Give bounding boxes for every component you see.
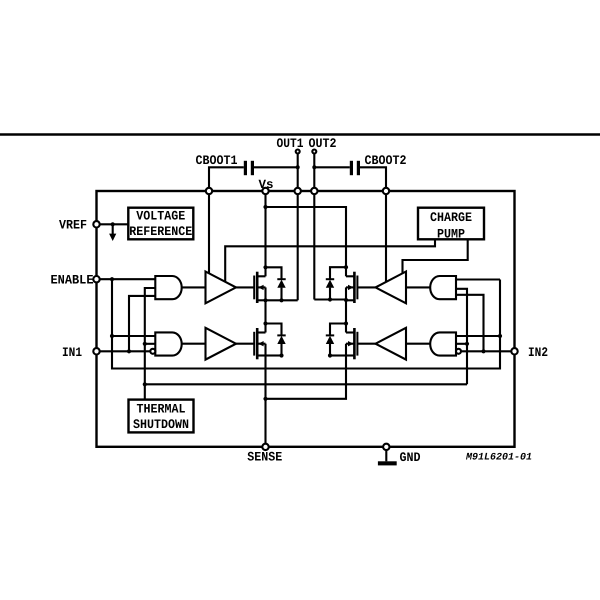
pin OUT2 <box>311 188 317 194</box>
svg-text:M91L6201-01: M91L6201-01 <box>465 453 532 464</box>
junction CBOOT1/OUT1 <box>296 165 300 169</box>
wire A4 enable input <box>456 335 500 337</box>
wire thermal to AND2 <box>145 343 156 345</box>
junction thermal cross <box>143 382 147 386</box>
wire CBOOT1 right <box>254 166 298 168</box>
wire thermal right vertical <box>456 289 467 385</box>
junction sense <box>263 397 267 401</box>
wire T4 gate lead <box>357 343 375 345</box>
wire A3 out <box>406 286 430 288</box>
junction ENABLE AND2 <box>110 334 114 338</box>
diode D4 <box>330 324 346 336</box>
svg-text:CHARGE: CHARGE <box>430 210 472 225</box>
junction OUT1 node <box>263 298 267 302</box>
wire CBOOT2 right <box>360 167 386 191</box>
transistor M2 (low side left) <box>253 332 255 356</box>
svg-text:SENSE: SENSE <box>247 450 282 465</box>
wire VREF <box>100 223 129 225</box>
wire CBOOT1 left <box>209 167 244 191</box>
pin CBOOT2 <box>383 188 389 194</box>
buffer T1 <box>206 272 237 304</box>
buffer T3 <box>376 272 407 304</box>
svg-text:CBOOT2: CBOOT2 <box>365 153 407 168</box>
svg-text:PUMP: PUMP <box>437 226 465 241</box>
pin OUT1 <box>295 188 301 194</box>
and-gate A4 <box>430 332 456 355</box>
wire thermal cross <box>145 383 467 385</box>
wire M2 source down <box>264 356 266 447</box>
junction ENABLE tap <box>110 277 114 281</box>
junction IN2 tap <box>481 349 485 353</box>
svg-text:GND: GND <box>400 450 421 465</box>
wire sense join <box>266 356 347 399</box>
capacitor CBOOT2 <box>350 161 353 175</box>
capacitor CBOOT1 <box>244 161 247 175</box>
and-gate A2 <box>155 332 181 355</box>
wire T3 gate lead <box>357 286 375 288</box>
junction M4 drain diode <box>344 321 348 325</box>
svg-text:CBOOT1: CBOOT1 <box>196 153 238 168</box>
wire IN1 <box>100 350 151 352</box>
svg-text:VREF: VREF <box>59 218 87 233</box>
wire T1 gate lead <box>236 286 254 288</box>
svg-text:ENABLE: ENABLE <box>51 273 94 288</box>
transistor M3 (high side right) <box>356 276 358 300</box>
wire IN2 up branch <box>456 295 484 352</box>
wire A1 out <box>182 286 206 288</box>
ground <box>385 450 387 461</box>
pin GND <box>383 444 389 450</box>
box THERMAL SHUTDOWN <box>129 400 194 433</box>
wire CBOOT1 internal <box>208 194 210 273</box>
wire thermal to A4 <box>456 343 467 345</box>
wire A3 enable input <box>456 278 500 280</box>
junction D4 anode <box>328 353 332 357</box>
wire IN2 <box>461 350 511 352</box>
transistor M1 (high side left) <box>253 276 255 300</box>
pin Vs <box>262 188 268 194</box>
junction enable right <box>498 334 502 338</box>
junction D2 anode <box>279 353 283 357</box>
pin IN1 <box>93 348 99 354</box>
diode D2 <box>266 324 282 336</box>
wire M2 source line <box>266 354 282 356</box>
svg-text:OUT2: OUT2 <box>309 136 337 151</box>
wire IN1 up branch <box>129 296 155 351</box>
wire OUT1 vertical <box>297 154 299 301</box>
junction D3 anode <box>328 297 332 301</box>
junction D1 anode <box>279 298 283 302</box>
bubble A2 input <box>150 349 155 354</box>
buffer T4 <box>376 328 407 360</box>
wire ENABLE to AND2 <box>112 335 155 337</box>
pin IN2 <box>511 348 517 354</box>
bubble A4 input <box>456 349 461 354</box>
wire OUT1 to M2 drain <box>264 300 266 332</box>
wire A2 out <box>182 343 206 345</box>
junction OUT2 node <box>344 298 348 302</box>
wire Vs to right drain <box>266 207 347 267</box>
wire Vs internal <box>264 194 266 267</box>
wire CBOOT2 left <box>314 166 350 168</box>
pin CBOOT1 <box>206 188 212 194</box>
svg-text:SHUTDOWN: SHUTDOWN <box>133 417 189 432</box>
wire ENABLE down <box>112 279 500 368</box>
wire OUT2 node <box>314 298 346 300</box>
svg-text:IN1: IN1 <box>62 345 82 360</box>
pin VREF <box>93 221 99 227</box>
junction M2 drain diode <box>263 321 267 325</box>
junction Vs branch <box>263 205 267 209</box>
terminal OUT2 <box>312 150 316 154</box>
box CHARGE PUMP <box>418 208 484 240</box>
junction M3 drain <box>344 265 348 269</box>
wire OUT2 vertical <box>313 154 315 300</box>
diode D1 <box>266 267 282 279</box>
wire charge pump 2 <box>403 239 468 273</box>
junction thermal A4 <box>465 342 469 346</box>
wire M4 source line <box>330 354 346 356</box>
svg-text:IN2: IN2 <box>528 345 548 360</box>
transistor M4 (low side right) <box>356 332 358 356</box>
package outline <box>97 191 515 447</box>
pin SENSE <box>262 444 268 450</box>
wire OUT2 to M4 drain <box>345 300 347 333</box>
junction M1 drain <box>263 265 267 269</box>
wire A4 out <box>406 343 430 345</box>
wire ENABLE to AND1 <box>100 278 156 280</box>
wire T2 gate lead <box>236 343 254 345</box>
svg-text:THERMAL: THERMAL <box>137 402 186 417</box>
box VOLTAGE REFERENCE <box>128 208 193 240</box>
pin ENABLE <box>93 276 99 282</box>
svg-text:VOLTAGE: VOLTAGE <box>136 209 185 224</box>
arrow internal reference <box>112 224 114 235</box>
svg-text:OUT1: OUT1 <box>277 136 304 151</box>
diode D3 <box>330 267 346 279</box>
junction CBOOT2/OUT2 <box>312 165 316 169</box>
junction IN1 tap <box>127 349 131 353</box>
and-gate A3 <box>430 276 456 299</box>
wire CBOOT2 internal <box>385 194 387 282</box>
wire charge pump 1 <box>225 239 435 282</box>
svg-text:REFERENCE: REFERENCE <box>129 224 192 239</box>
buffer T2 <box>206 328 237 360</box>
top separator rule <box>0 133 600 136</box>
junction thermal AND2 <box>143 342 147 346</box>
junction VREF tap <box>111 222 115 226</box>
wire thermal left vertical <box>145 288 156 400</box>
terminal OUT1 <box>296 150 300 154</box>
and-gate A1 <box>155 276 181 299</box>
wire OUT1 node <box>266 299 298 301</box>
